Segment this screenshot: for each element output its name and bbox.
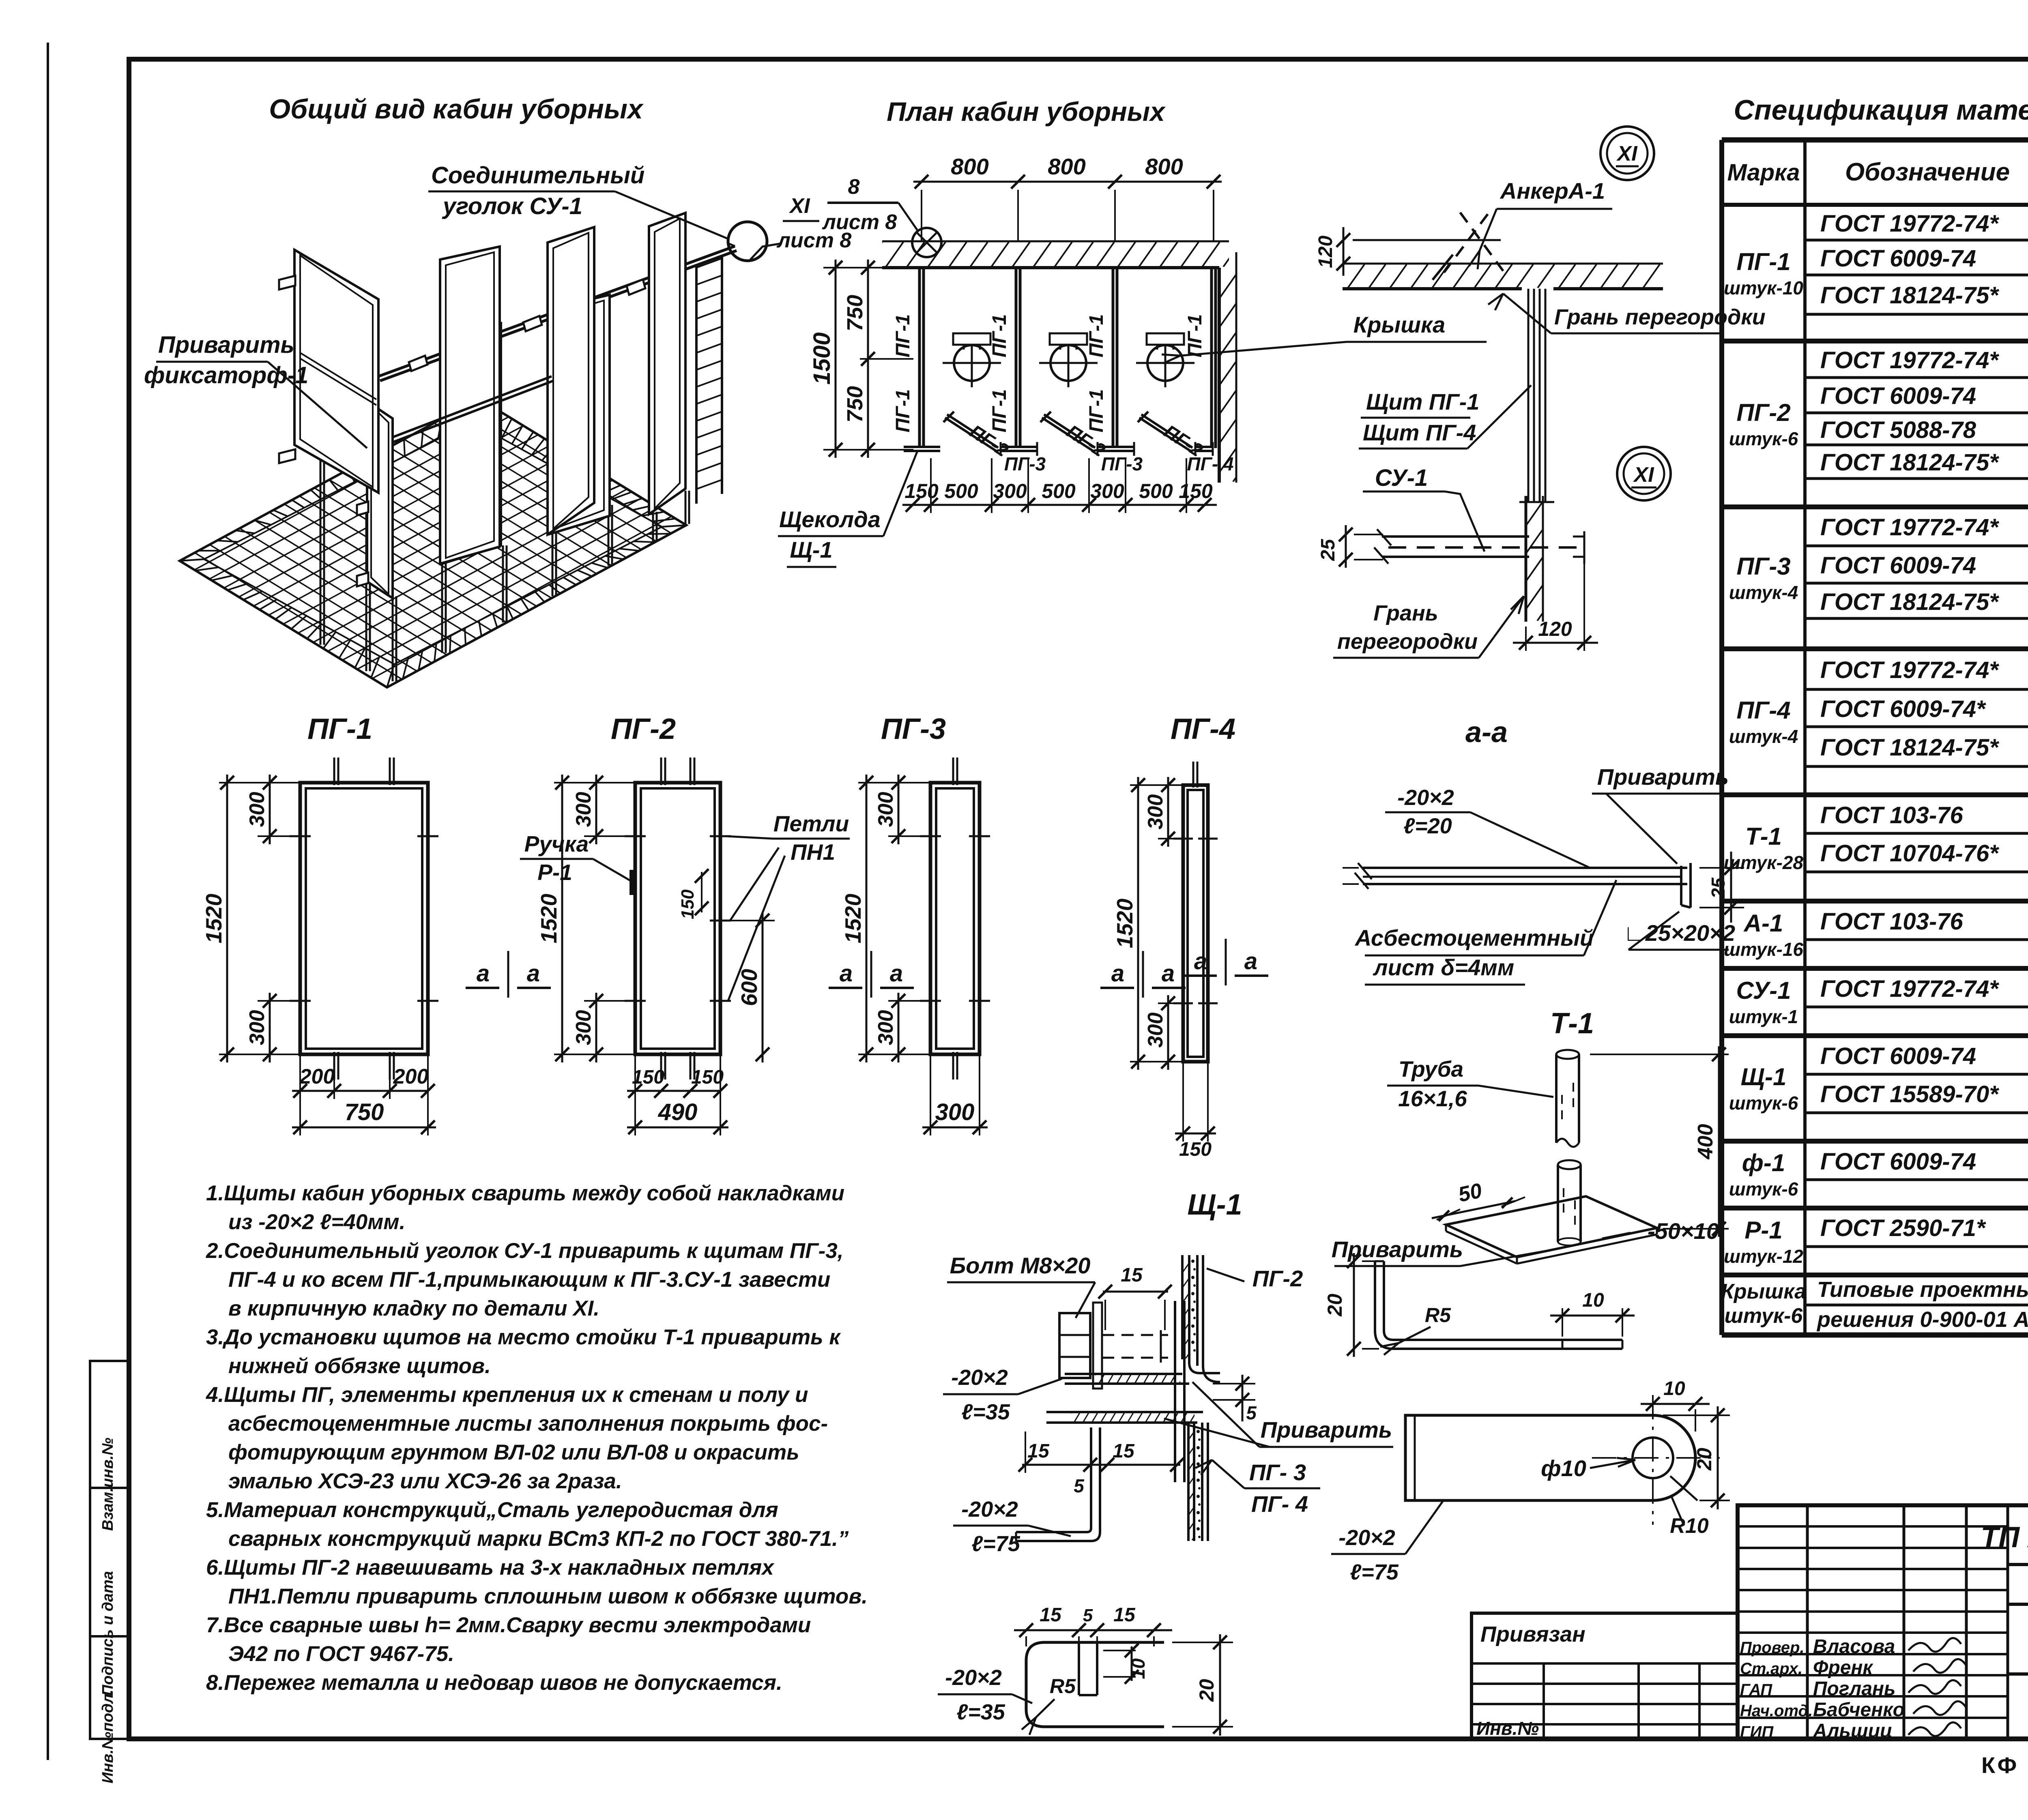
svg-text:ПГ- 4: ПГ- 4 xyxy=(1251,1491,1308,1517)
svg-text:ТП А-II-600-338.86 -АР альбом: ТП А-II-600-338.86 -АР альбом I,вып.2 xyxy=(1981,1521,2028,1554)
svg-text:200: 200 xyxy=(299,1065,335,1088)
anchor A-1 dashed cross xyxy=(1444,214,1488,273)
svg-text:уголок СУ-1: уголок СУ-1 xyxy=(442,193,582,219)
table group СУ-1 xyxy=(1722,1033,2028,1038)
svg-text:Щ-1: Щ-1 xyxy=(1187,1189,1242,1221)
svg-text:1520: 1520 xyxy=(201,893,226,943)
iso: legs front xyxy=(320,460,322,645)
svg-text:КФ 9359-02: КФ 9359-02 xyxy=(1981,1752,2028,1778)
svg-text:1520: 1520 xyxy=(1112,898,1137,948)
svg-text:300: 300 xyxy=(874,792,898,827)
svg-text:Соединительный: Соединительный xyxy=(431,162,644,189)
svg-text:1520: 1520 xyxy=(840,893,866,943)
svg-text:ПГ-1: ПГ-1 xyxy=(307,713,372,745)
svg-text:ПН1: ПН1 xyxy=(791,839,835,865)
svg-text:ГОСТ 19772-74*: ГОСТ 19772-74* xyxy=(1820,976,1999,1002)
T-1 upper pipe xyxy=(1556,1050,1579,1059)
plan: doors PG-2 diagonals xyxy=(947,414,998,448)
20 dim right of channel xyxy=(1172,1642,1233,1643)
svg-text:эмалью ХСЭ-23 или ХСЭ-26 за 2р: эмалью ХСЭ-23 или ХСЭ-26 за 2раза. xyxy=(228,1469,622,1493)
svg-text:ПГ-2: ПГ-2 xyxy=(1736,399,1790,426)
plan: bottom dimension chain xyxy=(902,504,1217,506)
iso: door C xyxy=(550,295,610,534)
handle R-1 on PG-2 xyxy=(629,870,636,895)
svg-text:490: 490 xyxy=(658,1099,698,1125)
svg-text:Грань перегородки: Грань перегородки xyxy=(1554,305,1766,329)
svg-text:сварных конструкций марки ВСт3: сварных конструкций марки ВСт3 КП-2 по Г… xyxy=(228,1527,849,1551)
svg-text:6.Щиты ПГ-2 навешивать на 3-х: 6.Щиты ПГ-2 навешивать на 3-х накладных … xyxy=(206,1556,775,1580)
svg-text:лист 8: лист 8 xyxy=(822,210,897,234)
table group ПГ-3 xyxy=(1722,646,2028,651)
svg-text:ПГ-1: ПГ-1 xyxy=(989,314,1010,358)
svg-text:штук-6: штук-6 xyxy=(1729,1092,1798,1114)
CY-1 wall band xyxy=(1525,496,1527,622)
svg-text:ПГ-1: ПГ-1 xyxy=(1086,314,1107,358)
5 dim right xyxy=(1213,1383,1255,1384)
hook detail xyxy=(1353,1253,1355,1357)
panel PG-4 xyxy=(1183,785,1208,1062)
table group Т-1 xyxy=(1722,899,2028,904)
svg-text:ГОСТ 6009-74: ГОСТ 6009-74 xyxy=(1820,1148,1976,1175)
svg-text:ℓ=35: ℓ=35 xyxy=(961,1400,1010,1424)
panel ПГ-3 outline xyxy=(930,783,980,1054)
svg-text:Крышка: Крышка xyxy=(1353,312,1445,337)
svg-text:штук-12: штук-12 xyxy=(1724,1246,1803,1267)
svg-text:20: 20 xyxy=(1693,1448,1716,1471)
svg-text:20: 20 xyxy=(1195,1679,1218,1702)
svg-text:Крышка: Крышка xyxy=(1721,1280,1806,1303)
svg-text:Провер.: Провер. xyxy=(1740,1639,1805,1657)
plan: top dimension chain 800x3 xyxy=(913,181,1222,183)
svg-text:ГОСТ 6009-74: ГОСТ 6009-74 xyxy=(1820,1043,1976,1069)
svg-text:штук-10: штук-10 xyxy=(1724,277,1803,298)
svg-text:800: 800 xyxy=(1145,154,1183,179)
svg-text:Спецификация материалов на каб: Спецификация материалов на кабины уборны… xyxy=(1734,94,2028,126)
bolt shaft dashed xyxy=(1102,1334,1168,1336)
svg-text:ГОСТ 19772-74*: ГОСТ 19772-74* xyxy=(1820,210,1999,237)
svg-text:План кабин уборных: План кабин уборных xyxy=(887,97,1166,127)
anchor detail xyxy=(1353,239,1501,241)
svg-text:Общий вид кабин уборных: Общий вид кабин уборных xyxy=(269,94,644,124)
svg-text:ПГ- 4: ПГ- 4 xyxy=(1187,453,1234,474)
svg-text:Типовые проектные: Типовые проектные xyxy=(1817,1277,2028,1302)
svg-text:750: 750 xyxy=(843,295,867,331)
table group Р-1 xyxy=(1722,1273,2028,1277)
10 dim inside xyxy=(1131,1646,1133,1681)
svg-text:ПГ-1: ПГ-1 xyxy=(892,314,914,358)
svg-text:1520: 1520 xyxy=(536,893,561,943)
svg-text:25: 25 xyxy=(1708,877,1729,899)
svg-text:Ручка: Ручка xyxy=(524,831,589,856)
svg-text:15: 15 xyxy=(1040,1604,1062,1626)
svg-text:500: 500 xyxy=(944,480,978,502)
table group ф-1 xyxy=(1722,1206,2028,1210)
svg-text:Болт М8×20: Болт М8×20 xyxy=(950,1253,1091,1278)
svg-text:Щ-1: Щ-1 xyxy=(790,537,832,562)
iso: partition P2 xyxy=(440,247,500,564)
svg-text:Френк: Френк xyxy=(1813,1657,1873,1678)
iso: partition P1 xyxy=(294,250,378,493)
svg-text:15: 15 xyxy=(1113,1440,1135,1462)
svg-text:300: 300 xyxy=(245,1010,269,1045)
svg-text:ХI: ХI xyxy=(788,194,810,218)
svg-text:Р-1: Р-1 xyxy=(537,860,572,885)
svg-text:Щит ПГ-4: Щит ПГ-4 xyxy=(1363,420,1476,445)
svg-text:Петли: Петли xyxy=(773,811,849,836)
svg-text:СУ-1: СУ-1 xyxy=(1375,465,1428,491)
svg-text:150: 150 xyxy=(632,1067,664,1088)
svg-text:10: 10 xyxy=(1128,1658,1149,1679)
iso: bubble XI xyxy=(728,222,767,261)
privyazan box xyxy=(1472,1613,1738,1739)
svg-text:а-а: а-а xyxy=(1465,716,1508,749)
svg-text:ГОСТ 103-76: ГОСТ 103-76 xyxy=(1820,802,1964,828)
svg-text:ГОСТ 18124-75*: ГОСТ 18124-75* xyxy=(1820,734,1999,761)
svg-text:750: 750 xyxy=(345,1099,384,1125)
svg-text:а: а xyxy=(840,960,853,987)
plate with hole xyxy=(1405,1415,1695,1500)
svg-text:ПГ-1: ПГ-1 xyxy=(1736,248,1790,275)
bolt head xyxy=(1059,1313,1090,1378)
svg-text:ПГ-1: ПГ-1 xyxy=(989,389,1010,433)
svg-text:300: 300 xyxy=(874,1010,898,1045)
svg-text:лист δ=4мм: лист δ=4мм xyxy=(1373,955,1514,980)
a-a sheet lines xyxy=(1363,867,1687,869)
svg-text:Т-1: Т-1 xyxy=(1745,823,1782,850)
svg-text:АнкерА-1: АнкерА-1 xyxy=(1500,178,1605,204)
detail bubble XI upper xyxy=(1600,127,1654,180)
svg-text:ХI: ХI xyxy=(1633,463,1654,487)
PG-3/PG-4 panel below xyxy=(1187,1423,1190,1541)
panel ПГ-2 outline xyxy=(635,783,720,1054)
plan: toilets xyxy=(953,333,990,345)
iso: front rail xyxy=(366,376,552,447)
channel section dims xyxy=(1014,1629,1172,1631)
svg-text:а: а xyxy=(477,960,490,987)
plan: partitions PG-1 xyxy=(918,268,921,448)
T-1 base plate xyxy=(1446,1196,1657,1257)
svg-text:8.Пережег металла и недовар шв: 8.Пережег металла и недовар швов не допу… xyxy=(206,1671,782,1695)
15 dim over shaft xyxy=(1103,1291,1168,1293)
svg-text:5: 5 xyxy=(1246,1402,1257,1423)
svg-text:300: 300 xyxy=(572,792,595,827)
svg-text:Приварить: Приварить xyxy=(1261,1417,1392,1442)
L strap bottom xyxy=(1016,1427,1091,1532)
svg-text:750: 750 xyxy=(843,386,867,423)
plan: right wall band xyxy=(1218,268,1221,483)
svg-text:асбестоцементные листы заполне: асбестоцементные листы заполнения покрыт… xyxy=(228,1412,828,1436)
iso: CY-1 top rail xyxy=(378,246,735,376)
specification table xyxy=(1722,137,2028,143)
svg-text:500: 500 xyxy=(1139,480,1173,502)
table group Крышка xyxy=(1805,1304,2028,1307)
svg-text:Асбестоцементный: Асбестоцементный xyxy=(1354,925,1594,951)
svg-text:Подпись и дата: Подпись и дата xyxy=(99,1571,116,1696)
svg-text:120: 120 xyxy=(1538,618,1572,640)
svg-text:15: 15 xyxy=(1027,1440,1050,1462)
svg-text:Щеколда: Щеколда xyxy=(779,507,881,532)
svg-text:Ст.арх.: Ст.арх. xyxy=(1740,1660,1802,1678)
svg-text:4.Щиты ПГ, элементы крепления: 4.Щиты ПГ, элементы крепления их к стена… xyxy=(206,1383,808,1407)
svg-text:5.Материал конструкций„Сталь у: 5.Материал конструкций„Сталь углеродиста… xyxy=(206,1498,778,1522)
svg-text:нижней оббязке щитов.: нижней оббязке щитов. xyxy=(228,1354,491,1378)
svg-text:в кирпичную кладку по детали Х: в кирпичную кладку по детали ХI. xyxy=(228,1296,599,1320)
svg-text:перегородки: перегородки xyxy=(1337,629,1478,654)
svg-text:Марка: Марка xyxy=(1727,159,1800,186)
svg-text:ПГ-3: ПГ-3 xyxy=(1101,453,1143,474)
svg-text:Альшиц: Альшиц xyxy=(1813,1720,1893,1742)
svg-text:10: 10 xyxy=(1582,1290,1604,1311)
svg-text:Бабченко: Бабченко xyxy=(1813,1699,1905,1721)
svg-text:штук-4: штук-4 xyxy=(1729,582,1798,603)
svg-text:7.Все сварные швы h= 2мм.Сварк: 7.Все сварные швы h= 2мм.Сварку вести эл… xyxy=(206,1613,811,1637)
svg-text:ГОСТ 19772-74*: ГОСТ 19772-74* xyxy=(1820,657,1999,683)
svg-text:20: 20 xyxy=(1323,1294,1346,1317)
svg-text:ПГ-1: ПГ-1 xyxy=(1086,389,1107,433)
svg-text:ПГ-3: ПГ-3 xyxy=(881,713,946,745)
svg-text:300: 300 xyxy=(993,480,1027,502)
iso: partition P3 xyxy=(548,227,594,534)
svg-text:800: 800 xyxy=(951,154,988,179)
a-a 25 dim xyxy=(1699,867,1744,869)
iso: mid rails inside P1 xyxy=(300,353,376,399)
svg-text:ℓ=35: ℓ=35 xyxy=(956,1700,1005,1724)
iso: legs behind xyxy=(441,562,443,653)
iso: wall tile column xyxy=(695,266,698,504)
svg-text:R5: R5 xyxy=(1425,1304,1451,1326)
svg-text:500: 500 xyxy=(1042,480,1076,502)
svg-text:Труба: Труба xyxy=(1399,1056,1463,1082)
svg-text:ГОСТ 6009-74: ГОСТ 6009-74 xyxy=(1820,383,1976,409)
svg-text:Приварить: Приварить xyxy=(1332,1236,1463,1262)
svg-text:СУ-1: СУ-1 xyxy=(1736,977,1791,1004)
svg-text:8: 8 xyxy=(848,175,860,199)
svg-text:1500: 1500 xyxy=(809,332,835,384)
svg-text:ℓ=75: ℓ=75 xyxy=(1350,1560,1399,1584)
title block xyxy=(1738,1505,2028,1739)
svg-text:2.Соединительный уголок СУ-1: 2.Соединительный уголок СУ-1 приварить к… xyxy=(206,1239,843,1263)
svg-text:Щит ПГ-1: Щит ПГ-1 xyxy=(1366,389,1479,414)
svg-text:а: а xyxy=(890,960,903,987)
svg-text:Приварить: Приварить xyxy=(158,332,294,358)
T-1 400 dim xyxy=(1590,1054,1729,1055)
iso: partition P4 xyxy=(649,213,685,514)
svg-text:ПГ-4: ПГ-4 xyxy=(1171,713,1235,745)
channel shape xyxy=(1026,1642,1164,1727)
svg-text:штук-16: штук-16 xyxy=(1724,939,1803,960)
svg-text:-20×2: -20×2 xyxy=(1397,786,1454,810)
svg-text:16×1,6: 16×1,6 xyxy=(1398,1086,1467,1111)
svg-text:ПГ-2: ПГ-2 xyxy=(611,713,676,745)
svg-text:-20×2: -20×2 xyxy=(951,1365,1008,1390)
svg-text:ПГ-1: ПГ-1 xyxy=(892,389,914,433)
svg-text:ПГ-4 и ко всем ПГ-1,примыкающи: ПГ-4 и ко всем ПГ-1,примыкающим к ПГ-3.С… xyxy=(228,1268,830,1292)
svg-text:Нач.отд.: Нач.отд. xyxy=(1740,1702,1813,1720)
svg-text:-50×10: -50×10 xyxy=(1648,1218,1719,1244)
iso: rail clips xyxy=(409,356,428,371)
svg-text:ℓ=20: ℓ=20 xyxy=(1403,814,1452,838)
svg-text:300: 300 xyxy=(935,1099,975,1125)
plan: left overall dims 1500 750 750 xyxy=(835,260,837,458)
svg-text:ГОСТ 6009-74: ГОСТ 6009-74 xyxy=(1820,552,1976,579)
svg-text:ГОСТ 2590-71*: ГОСТ 2590-71* xyxy=(1820,1215,1986,1241)
plan: latch mark xyxy=(904,446,940,448)
svg-text:5: 5 xyxy=(1083,1605,1093,1625)
svg-text:150: 150 xyxy=(1179,1139,1212,1160)
svg-text:10: 10 xyxy=(1663,1378,1685,1399)
svg-text:Поглань: Поглань xyxy=(1813,1678,1896,1700)
plan: detail mark circle-x on wall xyxy=(912,228,941,257)
svg-text:150: 150 xyxy=(1179,480,1213,502)
svg-text:ГОСТ 10704-76*: ГОСТ 10704-76* xyxy=(1820,840,1999,867)
svg-text:Инв.№: Инв.№ xyxy=(1476,1718,1539,1739)
vertical bolt plate xyxy=(1174,1301,1176,1482)
svg-text:800: 800 xyxy=(1048,154,1085,179)
iso: fixator tabs P1 xyxy=(279,276,295,290)
svg-text:Грань: Грань xyxy=(1373,601,1438,625)
svg-text:ПГ-3: ПГ-3 xyxy=(1004,453,1046,474)
plan: PG-3 / PG-4 front panels xyxy=(1001,446,1037,448)
svg-text:а: а xyxy=(1244,948,1257,974)
svg-text:50: 50 xyxy=(1456,1179,1484,1207)
svg-text:ПГ- 3: ПГ- 3 xyxy=(1249,1459,1306,1485)
svg-text:-20×2: -20×2 xyxy=(945,1665,1002,1690)
T-1 50 dim xyxy=(1437,1209,1460,1220)
svg-text:300: 300 xyxy=(1144,1013,1167,1048)
svg-text:-20×2: -20×2 xyxy=(1338,1526,1395,1550)
svg-text:ГОСТ 18124-75*: ГОСТ 18124-75* xyxy=(1820,282,1999,309)
svg-text:R10: R10 xyxy=(1670,1514,1708,1538)
20 dim plate xyxy=(1663,1414,1730,1416)
PG-2 panel section xyxy=(1181,1255,1184,1359)
svg-text:ПГ-4: ПГ-4 xyxy=(1736,697,1790,724)
svg-text:штук-6: штук-6 xyxy=(1729,1178,1798,1200)
left binding strip with rotated captions xyxy=(90,1361,129,1739)
svg-text:ПГ-3: ПГ-3 xyxy=(1736,553,1790,580)
svg-text:15: 15 xyxy=(1113,1604,1136,1626)
svg-text:Р-1: Р-1 xyxy=(1744,1217,1782,1244)
svg-text:ПН1.Петли приварить сплошным ш: ПН1.Петли приварить сплошным швом к оббя… xyxy=(228,1584,868,1608)
svg-text:ГОСТ 19772-74*: ГОСТ 19772-74* xyxy=(1820,514,1999,541)
svg-text:150: 150 xyxy=(691,1067,724,1088)
svg-text:а: а xyxy=(1111,960,1124,987)
svg-text:а: а xyxy=(1194,948,1207,974)
upper strap xyxy=(1065,1373,1182,1375)
svg-text:120: 120 xyxy=(1315,236,1336,268)
sheet trim line left xyxy=(47,43,49,1760)
iso floor grid xyxy=(180,399,686,687)
svg-text:ГОСТ 15589-70*: ГОСТ 15589-70* xyxy=(1820,1081,1999,1107)
svg-text:300: 300 xyxy=(245,792,269,827)
svg-text:600: 600 xyxy=(737,969,762,1006)
svg-text:Привязан: Привязан xyxy=(1480,1622,1585,1646)
svg-text:ХI: ХI xyxy=(1616,142,1638,165)
table group Щ-1 xyxy=(1722,1139,2028,1144)
iso: door B xyxy=(442,323,501,564)
svg-text:штук-6: штук-6 xyxy=(1725,1304,1803,1328)
svg-text:ГОСТ 103-76: ГОСТ 103-76 xyxy=(1820,908,1964,935)
svg-text:Обозначение: Обозначение xyxy=(1845,158,2010,186)
svg-text:Приварить: Приварить xyxy=(1597,764,1729,790)
svg-text:ГАП: ГАП xyxy=(1740,1681,1772,1699)
svg-text:ф-1: ф-1 xyxy=(1742,1149,1785,1176)
svg-text:штук-1: штук-1 xyxy=(1729,1006,1798,1027)
10 dim plate xyxy=(1652,1404,1653,1413)
T-1 lower pipe xyxy=(1558,1160,1581,1169)
svg-text:Власова: Власова xyxy=(1813,1636,1895,1657)
svg-text:200: 200 xyxy=(393,1065,429,1088)
svg-text:из -20×2 ℓ=40мм.: из -20×2 ℓ=40мм. xyxy=(228,1210,405,1234)
svg-text:150: 150 xyxy=(904,480,939,502)
svg-text:а: а xyxy=(527,960,540,987)
plan: wall band top xyxy=(882,240,1229,243)
svg-text:R5: R5 xyxy=(1050,1675,1076,1698)
120 dim CY-1 xyxy=(1525,627,1527,651)
svg-text:ℓ=75: ℓ=75 xyxy=(971,1532,1020,1556)
svg-text:Щ-1: Щ-1 xyxy=(1741,1063,1787,1090)
svg-text:-20×2: -20×2 xyxy=(961,1497,1018,1522)
svg-text:ГОСТ 19772-74*: ГОСТ 19772-74* xyxy=(1820,347,1999,373)
svg-text:15: 15 xyxy=(1121,1264,1143,1286)
svg-text:А-1: А-1 xyxy=(1743,910,1783,937)
svg-text:а: а xyxy=(1162,960,1175,987)
a-a angle at right xyxy=(1680,866,1682,905)
lower strap xyxy=(1046,1411,1203,1413)
svg-text:решения 0-900-01 А.II: решения 0-900-01 А.II xyxy=(1816,1307,2028,1332)
svg-text:штук-4: штук-4 xyxy=(1729,726,1798,747)
svg-text:300: 300 xyxy=(572,1010,595,1045)
svg-text:25: 25 xyxy=(1317,539,1339,561)
15 15 5 dims left xyxy=(1022,1464,1180,1466)
svg-text:ГОСТ 5088-78: ГОСТ 5088-78 xyxy=(1820,417,1976,443)
svg-text:штук-6: штук-6 xyxy=(1729,428,1798,449)
svg-text:ПГ-1: ПГ-1 xyxy=(1184,314,1206,358)
svg-text:5: 5 xyxy=(1074,1475,1085,1496)
table group А-1 xyxy=(1722,966,2028,971)
svg-text:300: 300 xyxy=(1090,480,1124,502)
table group ПГ-2 xyxy=(1722,504,2028,509)
svg-text:Взам.инв.№: Взам.инв.№ xyxy=(99,1438,116,1531)
svg-text:фотирующим грунтом ВЛ-02 или В: фотирующим грунтом ВЛ-02 или ВЛ-08 и окр… xyxy=(228,1440,799,1464)
edge-on panels below wall xyxy=(1527,289,1530,502)
svg-text:ф10: ф10 xyxy=(1541,1455,1586,1481)
10 dim hook xyxy=(1562,1308,1563,1337)
svg-text:ГОСТ 18124-75*: ГОСТ 18124-75* xyxy=(1820,589,1999,615)
table group ПГ-1 xyxy=(1722,339,2028,343)
svg-text:3.До установки щитов на место: 3.До установки щитов на место стойки Т-1… xyxy=(206,1325,841,1349)
svg-text:Э42 по ГОСТ 9467-75.: Э42 по ГОСТ 9467-75. xyxy=(228,1642,454,1666)
table group ПГ-4 xyxy=(1722,792,2028,797)
iso: door A edge-on xyxy=(367,401,393,598)
svg-text:1.Щиты кабин уборных сварить: 1.Щиты кабин уборных сварить между собой… xyxy=(206,1181,844,1205)
svg-text:Т-1: Т-1 xyxy=(1550,1007,1594,1040)
detail bubble XI lower xyxy=(1617,447,1671,500)
svg-text:Инв.№подл.: Инв.№подл. xyxy=(99,1689,116,1783)
svg-text:ГИП: ГИП xyxy=(1740,1723,1774,1741)
svg-text:ГОСТ 18124-75*: ГОСТ 18124-75* xyxy=(1820,449,1999,476)
svg-text:ГОСТ 6009-74: ГОСТ 6009-74 xyxy=(1820,245,1976,272)
iso floor border tiles xyxy=(180,399,686,687)
svg-text:ПГ-2: ПГ-2 xyxy=(1252,1266,1303,1291)
svg-text:400: 400 xyxy=(1694,1124,1717,1160)
svg-text:ГОСТ 6009-74*: ГОСТ 6009-74* xyxy=(1820,696,1986,722)
svg-text:300: 300 xyxy=(1144,794,1167,830)
panel ПГ-1 outline xyxy=(300,783,428,1054)
